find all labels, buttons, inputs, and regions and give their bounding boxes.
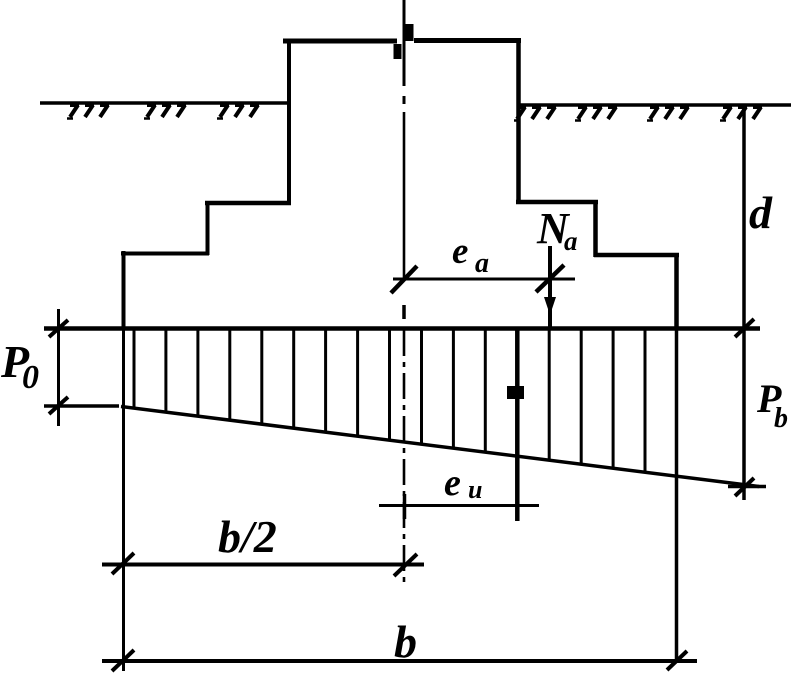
- resultant point marker: [507, 386, 524, 399]
- footing right step1 horizontal: [516, 200, 598, 205]
- p0 bracket vertical line: [57, 309, 60, 426]
- label Na: [536, 204, 578, 256]
- soil hatch group right 1: [514, 107, 556, 121]
- break symbol upper blob: [405, 24, 414, 41]
- oblique tick b right: [667, 651, 687, 670]
- oblique tick at Na application point: [536, 265, 564, 292]
- pressure hatch line 11: [452, 330, 455, 449]
- svg-text:b: b: [774, 403, 788, 434]
- soil hatch group left 1: [67, 105, 109, 119]
- dimension line ea: [393, 278, 575, 281]
- oblique tick Pb bottom: [735, 478, 754, 496]
- footing right step1 vertical: [593, 200, 598, 257]
- ground line right: [518, 103, 791, 107]
- label Pb: [756, 376, 788, 434]
- footing right step2 horizontal: [594, 253, 679, 258]
- svg-text:a: a: [564, 226, 578, 256]
- label d: [749, 187, 773, 238]
- pressure hatch line 14: [548, 330, 551, 461]
- footing left step1 horizontal: [205, 201, 291, 206]
- pressure diagram slanted bottom line: [121, 407, 759, 487]
- centerline (vertical dash-dot axis): [403, 0, 406, 588]
- svg-text:e: e: [452, 231, 468, 272]
- oblique tick b/2 left: [112, 553, 134, 574]
- label eu: [444, 462, 482, 504]
- footing left edge: [122, 251, 126, 330]
- pressure hatch line 5: [260, 330, 263, 425]
- svg-text:0: 0: [22, 359, 39, 396]
- oblique tick b left: [112, 650, 134, 671]
- svg-text:u: u: [468, 475, 482, 504]
- pressure hatch line 4: [228, 330, 231, 421]
- pressure hatch line 9: [388, 330, 391, 441]
- oblique tick b/2 right: [394, 554, 417, 576]
- pressure hatch line 1: [133, 330, 136, 409]
- footing left step2 horizontal: [121, 252, 209, 256]
- soil hatch group right 2: [575, 107, 617, 121]
- dimension line b/2: [102, 563, 424, 567]
- column top edge right: [414, 38, 521, 43]
- force Na line: [548, 246, 552, 330]
- extension line right (for b dimension): [675, 330, 679, 663]
- column right edge: [516, 40, 521, 203]
- label P0: [0, 336, 39, 396]
- pressure hatch line 8: [356, 330, 359, 437]
- p0 oblique tick top: [49, 320, 68, 337]
- svg-text:a: a: [475, 248, 489, 279]
- svg-text:d: d: [749, 187, 773, 238]
- p0 oblique tick bottom: [49, 397, 68, 414]
- oblique tick d top at base line: [735, 319, 754, 337]
- footing right edge: [674, 253, 679, 330]
- pressure hatch line 2: [164, 330, 167, 413]
- break symbol lower blob: [394, 44, 402, 59]
- pressure hatch line 10: [420, 330, 423, 445]
- pressure hatch line 7: [324, 330, 327, 433]
- p0 bracket bottom tick line: [44, 404, 119, 408]
- soil hatch group left 3: [217, 105, 259, 119]
- resultant extension line (hatch at eu): [515, 330, 520, 521]
- pressure hatch line 16: [612, 330, 615, 469]
- label b: [394, 616, 417, 667]
- footing left step1 vertical: [206, 201, 210, 255]
- extension line d and Pb: [742, 105, 746, 500]
- column top edge left: [283, 39, 397, 44]
- eu tick at centerline: [403, 494, 407, 519]
- svg-text:b: b: [394, 616, 417, 667]
- pressure hatch line 6: [292, 330, 295, 429]
- svg-text:e: e: [444, 462, 461, 504]
- ground line left: [40, 101, 289, 105]
- pressure hatch line 3: [196, 330, 199, 417]
- oblique tick ea left: [391, 266, 417, 293]
- soil hatch group right 3: [647, 107, 689, 121]
- svg-text:b/2: b/2: [218, 511, 277, 562]
- pressure hatch line 12: [484, 330, 487, 453]
- extension line left (for b dimension): [122, 330, 125, 671]
- dimension line b: [102, 659, 697, 663]
- force Na arrowhead: [544, 297, 556, 315]
- column left edge: [287, 40, 291, 204]
- pressure hatch line 15: [580, 330, 583, 465]
- soil hatch group left 2: [144, 105, 186, 119]
- pressure hatch line 17: [644, 330, 647, 473]
- dimension line eu: [379, 504, 539, 507]
- soil hatch group right 4: [720, 107, 762, 121]
- Pb bottom tick line: [728, 485, 766, 489]
- label ea: [452, 231, 489, 279]
- label b/2: [218, 511, 277, 562]
- footing base / pressure diagram top line: [44, 326, 760, 331]
